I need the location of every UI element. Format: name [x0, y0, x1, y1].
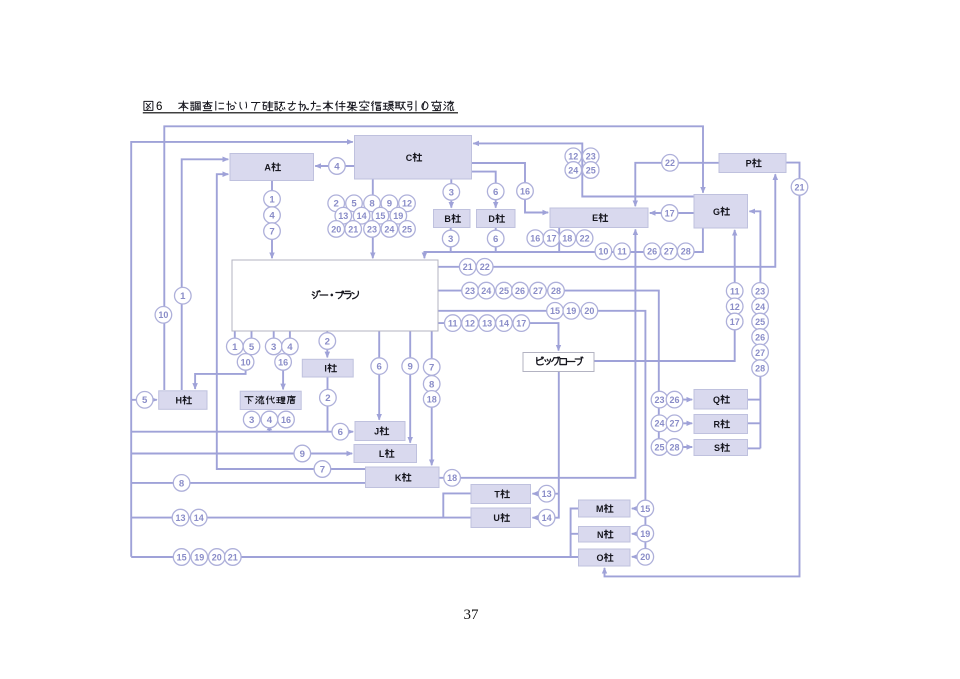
svg-text:15: 15	[550, 306, 560, 316]
svg-text:25: 25	[586, 165, 596, 175]
svg-text:5: 5	[351, 199, 357, 210]
svg-text:I: I	[324, 364, 327, 374]
svg-text:U: U	[493, 513, 500, 523]
svg-text:19: 19	[566, 306, 576, 316]
svg-text:P: P	[746, 159, 752, 169]
svg-text:M: M	[596, 504, 604, 514]
svg-text:13: 13	[175, 513, 185, 523]
svg-text:23: 23	[367, 224, 377, 234]
svg-text:26: 26	[669, 395, 679, 405]
svg-text:14: 14	[357, 211, 367, 221]
svg-text:28: 28	[681, 247, 691, 257]
svg-text:10: 10	[598, 247, 608, 257]
svg-text:24: 24	[384, 224, 394, 234]
svg-text:21: 21	[463, 262, 473, 272]
svg-text:2: 2	[325, 336, 330, 347]
svg-text:12: 12	[730, 302, 740, 312]
svg-text:15: 15	[640, 504, 650, 514]
svg-text:4: 4	[287, 342, 293, 353]
svg-text:9: 9	[408, 362, 413, 373]
svg-text:9: 9	[387, 199, 392, 210]
svg-text:E: E	[592, 213, 598, 223]
svg-text:24: 24	[654, 419, 664, 429]
svg-text:11: 11	[730, 286, 740, 296]
svg-text:6: 6	[156, 101, 162, 113]
svg-text:19: 19	[393, 211, 403, 221]
svg-text:21: 21	[348, 224, 358, 234]
svg-text:17: 17	[546, 234, 556, 244]
svg-text:20: 20	[331, 224, 341, 234]
svg-text:4: 4	[267, 415, 273, 426]
svg-text:12: 12	[568, 152, 578, 162]
svg-text:5: 5	[249, 342, 255, 353]
svg-text:21: 21	[228, 552, 238, 562]
svg-text:23: 23	[654, 395, 664, 405]
svg-text:10: 10	[158, 310, 168, 320]
svg-text:17: 17	[665, 208, 675, 218]
svg-text:27: 27	[669, 419, 679, 429]
svg-text:3: 3	[449, 187, 454, 198]
svg-text:23: 23	[586, 152, 596, 162]
svg-text:23: 23	[755, 286, 765, 296]
svg-text:15: 15	[177, 552, 187, 562]
svg-text:14: 14	[499, 319, 509, 329]
svg-text:10: 10	[241, 357, 251, 367]
svg-text:J: J	[374, 427, 379, 437]
svg-text:6: 6	[493, 234, 498, 245]
svg-text:9: 9	[300, 449, 305, 460]
svg-text:7: 7	[320, 464, 325, 475]
svg-text:26: 26	[647, 247, 657, 257]
svg-text:19: 19	[640, 529, 650, 539]
svg-text:24: 24	[755, 302, 765, 312]
svg-text:24: 24	[568, 165, 578, 175]
svg-text:3: 3	[249, 415, 254, 426]
svg-text:Q: Q	[713, 395, 720, 405]
svg-text:26: 26	[515, 286, 525, 296]
svg-text:12: 12	[402, 199, 412, 209]
svg-text:13: 13	[482, 319, 492, 329]
svg-text:R: R	[714, 420, 721, 430]
svg-text:28: 28	[551, 286, 561, 296]
svg-text:16: 16	[530, 234, 540, 244]
svg-text:3: 3	[271, 342, 276, 353]
svg-text:19: 19	[194, 552, 204, 562]
svg-text:22: 22	[580, 234, 590, 244]
svg-text:18: 18	[562, 234, 572, 244]
svg-text:B: B	[444, 214, 451, 224]
svg-text:8: 8	[369, 199, 375, 210]
svg-text:K: K	[395, 473, 402, 483]
svg-text:11: 11	[448, 319, 458, 329]
svg-text:4: 4	[269, 211, 275, 222]
svg-text:21: 21	[794, 182, 804, 192]
svg-text:25: 25	[654, 442, 664, 452]
svg-text:N: N	[597, 530, 604, 540]
svg-text:20: 20	[640, 552, 650, 562]
svg-text:17: 17	[730, 317, 740, 327]
svg-text:G: G	[713, 207, 720, 217]
svg-text:2: 2	[325, 393, 330, 404]
svg-text:6: 6	[377, 362, 382, 373]
svg-text:1: 1	[269, 194, 275, 205]
svg-text:14: 14	[194, 513, 204, 523]
svg-text:4: 4	[334, 161, 340, 172]
svg-text:O: O	[596, 553, 603, 563]
svg-text:15: 15	[375, 211, 385, 221]
svg-text:12: 12	[465, 319, 475, 329]
svg-text:25: 25	[402, 224, 412, 234]
svg-text:L: L	[379, 449, 385, 459]
svg-text:8: 8	[429, 379, 435, 390]
svg-text:24: 24	[481, 286, 491, 296]
svg-text:27: 27	[664, 247, 674, 257]
svg-text:14: 14	[542, 513, 552, 523]
svg-text:2: 2	[334, 199, 339, 210]
svg-text:27: 27	[755, 348, 765, 358]
svg-text:5: 5	[142, 395, 148, 406]
svg-text:20: 20	[584, 306, 594, 316]
svg-text:25: 25	[755, 317, 765, 327]
svg-text:T: T	[494, 490, 500, 500]
svg-text:23: 23	[465, 286, 475, 296]
svg-text:16: 16	[281, 415, 291, 425]
svg-text:1: 1	[232, 342, 238, 353]
svg-text:16: 16	[278, 357, 288, 367]
svg-text:13: 13	[542, 489, 552, 499]
svg-text:25: 25	[499, 286, 509, 296]
svg-text:H: H	[176, 396, 183, 406]
svg-text:22: 22	[665, 158, 675, 168]
svg-text:6: 6	[493, 187, 498, 198]
svg-text:1: 1	[180, 291, 186, 302]
svg-text:18: 18	[427, 394, 437, 404]
svg-text:3: 3	[448, 234, 453, 245]
svg-text:6: 6	[338, 427, 343, 438]
svg-text:37: 37	[464, 607, 480, 623]
svg-text:D: D	[488, 214, 495, 224]
svg-text:22: 22	[480, 262, 490, 272]
svg-text:18: 18	[447, 473, 457, 483]
svg-text:13: 13	[338, 211, 348, 221]
svg-text:A: A	[264, 163, 271, 173]
svg-text:C: C	[406, 153, 413, 163]
svg-text:28: 28	[755, 364, 765, 374]
svg-text:11: 11	[617, 247, 627, 257]
svg-text:S: S	[714, 443, 720, 453]
svg-text:26: 26	[755, 332, 765, 342]
svg-text:28: 28	[669, 442, 679, 452]
svg-text:7: 7	[429, 362, 434, 373]
svg-text:16: 16	[520, 186, 530, 196]
svg-text:17: 17	[516, 319, 526, 329]
svg-text:7: 7	[269, 227, 274, 238]
svg-text:27: 27	[533, 286, 543, 296]
svg-text:8: 8	[179, 478, 185, 489]
svg-text:20: 20	[212, 552, 222, 562]
